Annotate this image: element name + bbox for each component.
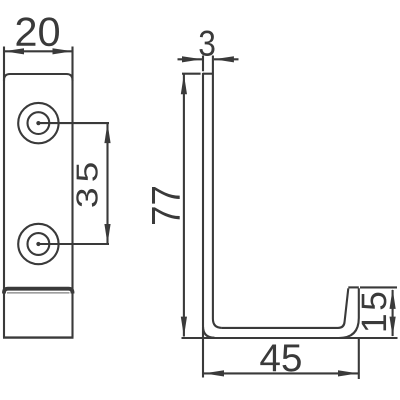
lip outer curve and right edge	[339, 288, 359, 338]
arrow 77 bottom	[181, 317, 187, 337]
plate top edge rounded	[4, 74, 73, 81]
label 35 rotated	[76, 163, 97, 207]
arrow 35 top	[104, 123, 110, 143]
arrow 35 bottom	[104, 224, 110, 244]
dim 35 line	[106, 123, 108, 244]
dim 3 right segment	[214, 58, 239, 60]
label 77 rotated	[152, 187, 180, 224]
profile top cap	[203, 73, 213, 75]
dim 45 line	[204, 372, 358, 374]
arrow 20 right	[53, 48, 73, 54]
profile inner right edge + 3-dim extension	[213, 56, 222, 328]
arrow 45 right	[338, 370, 358, 376]
hole top center dot	[36, 121, 40, 125]
leader bottom hole	[38, 243, 109, 245]
leader top hole	[38, 122, 109, 124]
hole bottom inner circle	[28, 233, 50, 255]
plate left edge + 20-dim extension	[3, 47, 5, 338]
label 15 rotated	[362, 293, 387, 331]
bend line thick	[4, 289, 73, 294]
inner bottom + lip inner slant	[222, 288, 348, 328]
dim 77 top extension	[182, 73, 201, 75]
dim 3 left segment	[178, 58, 203, 60]
hole bottom outer circle	[18, 224, 58, 264]
arrow 3 right	[214, 56, 234, 62]
profile outer left edge + 3-dim extension	[203, 56, 215, 338]
bottom outer line full (also 77/45/15 extension)	[182, 337, 398, 339]
arrow 45 left	[204, 370, 224, 376]
label 3	[200, 31, 215, 57]
arrow 20 left	[4, 48, 24, 54]
hole top outer circle	[18, 103, 58, 143]
dim 15 top extension	[360, 286, 397, 288]
lip top cap	[348, 286, 359, 288]
arrow 15 top	[390, 289, 396, 309]
dim 20 line	[4, 50, 73, 52]
hole top inner circle	[28, 112, 50, 134]
label 45	[260, 345, 301, 372]
arrow 15 bottom	[390, 317, 396, 337]
plate right edge + 20-dim extension	[71, 47, 73, 338]
dim 45 left extension	[202, 327, 204, 378]
hole bottom center dot	[36, 242, 40, 246]
dim 45 right extension / lip edge down	[358, 338, 360, 379]
arrow 3 left	[182, 56, 202, 62]
dim 15 line	[392, 290, 394, 336]
label 20	[17, 17, 60, 46]
plate bottom edge	[3, 336, 74, 338]
bend inner line rounded	[7, 292, 70, 294]
arrow 77 top	[181, 74, 187, 94]
dim 77 line	[183, 74, 185, 336]
